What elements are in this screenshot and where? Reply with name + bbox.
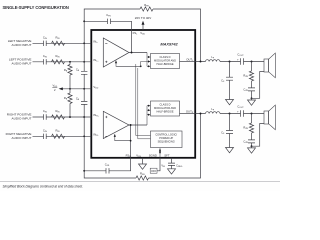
- svg-text:CB: CB: [76, 97, 80, 102]
- op-amp U1A (left channel): [103, 38, 129, 67]
- op-amp U1B (right channel): [103, 111, 129, 138]
- node LC junction right: [229, 113, 231, 115]
- bottom separator rule: [0, 180, 280, 182]
- svg-text:CIN: CIN: [43, 109, 48, 114]
- svg-text:RIN: RIN: [56, 128, 61, 133]
- VDD/2 arrow: [59, 87, 63, 90]
- class D modulator box 1 (left): [151, 54, 180, 69]
- internal feedback arrow into op-amp2: [115, 137, 131, 141]
- resistor RB2 (right bias): [68, 89, 72, 117]
- ground SFT cap: [168, 169, 176, 174]
- internal wire op-amp1 output to FSL: [129, 30, 147, 53]
- wire feedback rail left bottom: [84, 114, 200, 179]
- svg-text:CFS: CFS: [105, 163, 110, 168]
- svg-text:VM: VM: [161, 164, 165, 169]
- class D modulator box 2 (right): [151, 101, 180, 116]
- capacitor COUT2: [241, 110, 244, 117]
- wire OUTR output line: [195, 113, 264, 115]
- svg-text:RB: RB: [64, 68, 68, 73]
- svg-text:INR+: INR+: [93, 113, 99, 118]
- svg-text:CF: CF: [221, 131, 225, 136]
- ground VSS: [139, 164, 147, 169]
- rail segment INL- to INL+: [83, 43, 85, 62]
- resistor RZB1: [249, 62, 253, 88]
- resistor RIN4: [52, 134, 65, 138]
- inductor LF2: [206, 112, 220, 114]
- wire VSS to ground: [142, 158, 144, 164]
- svg-text:RZB: RZB: [243, 125, 248, 130]
- svg-text:CIN: CIN: [43, 54, 48, 59]
- wire FSR branch: [84, 158, 130, 171]
- svg-text:FSL: FSL: [133, 31, 139, 36]
- resistor RIN1: [52, 41, 65, 45]
- svg-text:+: +: [237, 58, 239, 61]
- node zobel junction right: [251, 113, 253, 115]
- svg-text:CIN: CIN: [43, 35, 48, 40]
- capacitor CF2 to ground: [226, 114, 233, 148]
- internal wire op-amp2 output to FSR: [129, 125, 147, 158]
- svg-text:INL-: INL-: [93, 39, 98, 44]
- capacitor CB1 (left bias): [81, 62, 87, 89]
- svg-text:MODULATOR AND: MODULATOR AND: [154, 58, 176, 62]
- svg-text:AUDIO INPUT: AUDIO INPUT: [12, 43, 32, 47]
- svg-text:VSS: VSS: [136, 153, 141, 158]
- svg-text:CB: CB: [76, 67, 80, 72]
- node INL+ junctions: [69, 61, 71, 63]
- control logic box: [151, 131, 183, 148]
- capacitor CFS2: [106, 168, 109, 173]
- capacitor CIN2: [44, 59, 47, 64]
- capacitor CZB1: [248, 88, 255, 98]
- svg-text:2: 2: [54, 88, 56, 92]
- svg-text:CZB: CZB: [243, 88, 248, 93]
- svg-text:CFS: CFS: [106, 13, 111, 18]
- IC U1 MAX9742 outline: [91, 30, 195, 158]
- svg-text:SGND: SGND: [149, 153, 157, 157]
- svg-text:COUT: COUT: [237, 52, 244, 57]
- ground zobel left: [251, 98, 253, 100]
- svg-text:POWER-UP: POWER-UP: [159, 136, 173, 140]
- resistor RB1 (left bias): [68, 62, 72, 89]
- OFF logic box: [150, 168, 157, 173]
- resistor RZB2: [249, 114, 253, 140]
- svg-text:AUDIO INPUT: AUDIO INPUT: [12, 136, 32, 140]
- node INR+ junctions: [69, 116, 71, 118]
- ground zobel right: [251, 146, 253, 148]
- svg-text:SINGLE-SUPPLY CONFIGURATION: SINGLE-SUPPLY CONFIGURATION: [3, 5, 69, 10]
- svg-text:COUT: COUT: [237, 104, 244, 109]
- svg-text:CF: CF: [221, 78, 225, 83]
- resistor RIN2: [52, 60, 65, 64]
- svg-text:SFT: SFT: [164, 153, 170, 157]
- resistor RIN3: [52, 115, 65, 119]
- svg-text:VDD: VDD: [93, 85, 98, 90]
- svg-text:RZB: RZB: [243, 73, 248, 78]
- speaker left: [264, 59, 269, 72]
- node bias junctions: [69, 88, 71, 90]
- ground CF1: [226, 100, 234, 105]
- wire right negative input line: [33, 135, 92, 137]
- svg-text:SEQUENCING: SEQUENCING: [158, 140, 175, 144]
- svg-text:20V TO 40V: 20V TO 40V: [135, 16, 151, 20]
- capacitor CFS1: [108, 19, 111, 24]
- wire right positive input line: [33, 116, 92, 118]
- supply input 20V TO 40V: [142, 25, 144, 30]
- node FSL cap junction: [83, 20, 85, 22]
- svg-text:OFF: OFF: [151, 169, 157, 173]
- node INR- junction: [83, 135, 85, 137]
- inductor LF1: [206, 60, 220, 62]
- wire VDD/2 bias line: [63, 88, 92, 90]
- svg-text:AUDIO INPUT: AUDIO INPUT: [12, 61, 32, 65]
- svg-text:INL+: INL+: [93, 58, 99, 63]
- wire speaker left return: [252, 72, 265, 99]
- wire class D box2 to OUTR: [180, 113, 196, 115]
- capacitor CIN1: [44, 41, 47, 46]
- wire left negative input line: [33, 42, 92, 44]
- svg-text:Simplified Block Diagrams cont: Simplified Block Diagrams continued at e…: [3, 185, 84, 189]
- internal feedback arrow into op-amp1: [116, 63, 141, 66]
- svg-text:+: +: [237, 110, 239, 113]
- svg-text:RIN: RIN: [56, 35, 61, 40]
- node zobel junction left: [251, 61, 253, 63]
- capacitor CB2 (right bias): [81, 89, 87, 117]
- speaker right: [264, 111, 269, 124]
- svg-text:RB: RB: [64, 96, 68, 101]
- internal arrows into class D box 1: [147, 53, 149, 67]
- wire SHDN to OFF: [157, 158, 160, 171]
- svg-text:CLASS D: CLASS D: [160, 102, 171, 106]
- svg-text:LF: LF: [211, 55, 215, 60]
- wire SFT regulator cap: [168, 158, 175, 169]
- svg-text:RFB: RFB: [140, 172, 145, 177]
- wire speaker right return: [252, 124, 265, 147]
- wire class D box1 to OUTL: [180, 61, 196, 63]
- svg-text:CREG: CREG: [176, 163, 183, 168]
- svg-text:CZB: CZB: [243, 140, 248, 145]
- wire FSL branch: [84, 21, 131, 30]
- internal control lines to sequencing box: [136, 64, 151, 139]
- capacitor CZB2: [248, 140, 255, 146]
- svg-text:INR-: INR-: [93, 132, 98, 137]
- node LC junction left: [229, 61, 231, 63]
- svg-text:MAX9742: MAX9742: [160, 42, 178, 47]
- ground CF2: [226, 148, 234, 153]
- capacitor CF1 to ground: [226, 62, 233, 100]
- svg-text:RFB: RFB: [144, 3, 149, 8]
- svg-text:HALF-BRIDGE: HALF-BRIDGE: [156, 109, 173, 113]
- resistor RFB top: [140, 7, 153, 11]
- svg-text:AUDIO INPUT: AUDIO INPUT: [12, 117, 32, 121]
- wire feedback rail left top: [84, 9, 200, 62]
- internal shutdown arrow into control box: [159, 151, 161, 157]
- svg-text:CONTROL LOGIC/: CONTROL LOGIC/: [155, 133, 177, 137]
- resistor RFB bottom: [136, 176, 148, 180]
- svg-text:LF: LF: [211, 107, 215, 112]
- node FSR cap junction: [83, 170, 85, 172]
- capacitor CIN4: [44, 134, 47, 139]
- svg-text:RIN: RIN: [56, 109, 61, 114]
- node INL- junction: [83, 42, 85, 44]
- svg-text:VDD: VDD: [140, 31, 145, 36]
- internal arrows into class D box 2: [147, 106, 149, 125]
- svg-text:HALF-BRIDGE: HALF-BRIDGE: [156, 62, 173, 66]
- svg-text:RIN: RIN: [56, 54, 61, 59]
- capacitor COUT1: [241, 58, 244, 65]
- svg-text:MODULATOR AND: MODULATOR AND: [154, 106, 176, 110]
- capacitor CIN3: [44, 114, 47, 119]
- rail segment INR+ to INR-: [83, 117, 85, 136]
- wire OUTL output line: [195, 61, 264, 63]
- svg-text:CLASS D: CLASS D: [160, 55, 171, 59]
- wire left positive input line: [33, 61, 92, 63]
- svg-text:CIN: CIN: [43, 128, 48, 133]
